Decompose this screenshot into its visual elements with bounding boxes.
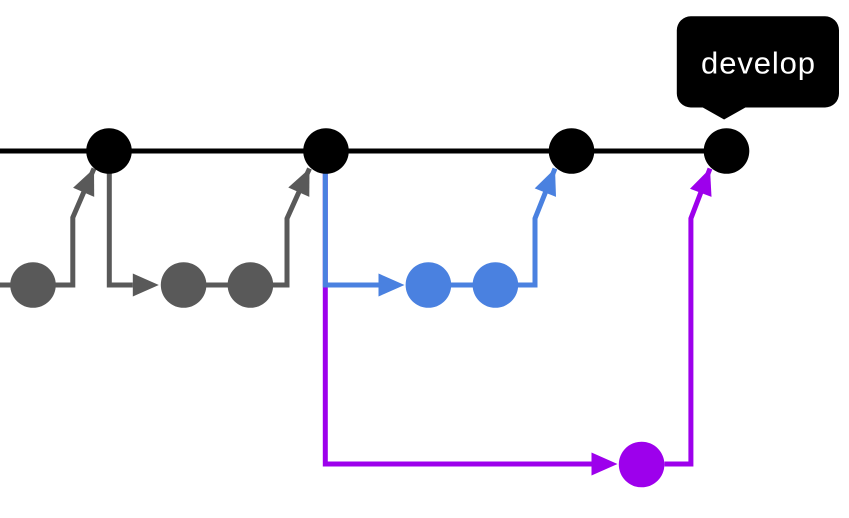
arrowhead: purple merge arrow into develop commit C4 [690, 169, 712, 197]
wire: purple line from P1 right then up to kink [665, 169, 711, 465]
wire: gray line connecting gray commits G2 and G3 [184, 283, 251, 288]
commit C3: black develop commit 3 [549, 128, 595, 174]
wire: gray line from G3 right then up with kink toward develop commit C2 [250, 169, 309, 286]
arrowhead: gray merge arrow into develop commit C2 [288, 169, 309, 197]
svg-text:develop: develop [701, 46, 816, 81]
commit B2: blue commit [473, 262, 519, 308]
commit G2: gray commit [161, 262, 207, 308]
arrowhead: blue arrow into blue commit B1 [379, 274, 405, 297]
wire: black develop main line [0, 149, 727, 154]
wire: gray feature branch 1 from left edge through G1 up to merge arrow into C1 [0, 169, 94, 286]
commit G3: gray commit [228, 262, 274, 308]
commit P1: purple commit [619, 442, 665, 488]
arrowhead: blue merge arrow into develop commit C3 [535, 169, 556, 197]
commit C2: black develop commit 2 [303, 128, 349, 174]
wire: gray feature branch 2 from develop commit C1 down and right to arrow [109, 151, 133, 285]
wire: blue line connecting blue commits B1 and B2 [428, 283, 495, 288]
commit C1: black develop commit 1 [86, 128, 132, 174]
arrowhead: gray arrow into gray commit G2 [133, 274, 159, 297]
wire: blue feature branch path from develop commit C2 down and right to merge arrow [325, 151, 378, 285]
commit C4: black develop commit 4 [704, 128, 750, 174]
wire: purple release branch path from develop commit C2 down and right to merge arrow [325, 151, 591, 464]
arrowhead: gray merge arrow into develop commit C1 [73, 169, 94, 197]
arrowhead: purple arrow into purple commit P1 [592, 453, 618, 476]
commit G1: gray commit at far left [10, 262, 56, 308]
label bubble: develop branch label with tail [677, 16, 839, 119]
commit B1: blue commit [406, 262, 452, 308]
wire: blue line from B2 right then up with kink toward develop commit C3 [495, 169, 555, 286]
